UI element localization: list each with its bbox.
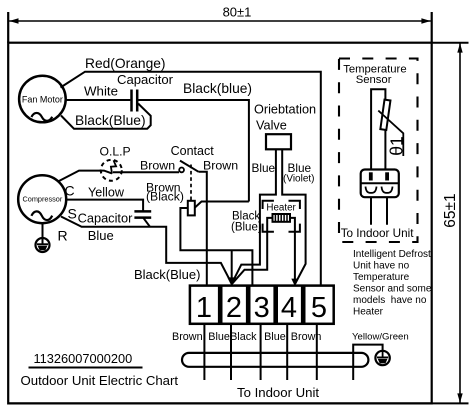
svg-text:(Blue): (Blue) bbox=[231, 222, 262, 234]
wire junction down to terminal 2 bbox=[231, 250, 233, 283]
wire coil bottom to terminals 2 and 3 bbox=[180, 208, 252, 285]
svg-text:R: R bbox=[58, 228, 68, 244]
svg-text:(Violet): (Violet) bbox=[283, 174, 315, 185]
svg-text:Black(Blue): Black(Blue) bbox=[75, 113, 146, 128]
svg-text:O.L.P: O.L.P bbox=[100, 144, 131, 158]
svg-text:Yellow/Green: Yellow/Green bbox=[352, 332, 409, 343]
wire Blue valve to terminal 2 bbox=[232, 149, 276, 283]
extension line left bbox=[7, 12, 9, 43]
svg-text:5: 5 bbox=[311, 292, 327, 324]
svg-text:2: 2 bbox=[226, 292, 242, 324]
svg-text:1: 1 bbox=[196, 292, 212, 324]
svg-text:Red(Orange): Red(Orange) bbox=[85, 56, 166, 71]
svg-text:Brown: Brown bbox=[140, 158, 175, 172]
svg-text:Brown: Brown bbox=[172, 331, 203, 343]
wire White fan motor to capacitor bbox=[65, 99, 130, 101]
svg-text:Sensor: Sensor bbox=[356, 74, 392, 86]
arrowhead into terminal 4 bbox=[291, 279, 298, 286]
compressor M2 bbox=[18, 175, 66, 223]
wire Yellow compressor C to OLP and contact bbox=[58, 171, 179, 182]
svg-text:S: S bbox=[68, 206, 77, 222]
ground compressor bbox=[36, 223, 50, 252]
border frame of chart bbox=[8, 43, 432, 404]
svg-text:Valve: Valve bbox=[256, 119, 287, 133]
wire Black(blue) capacitor to coil junction bbox=[138, 100, 249, 202]
svg-text:Contact: Contact bbox=[171, 144, 215, 158]
svg-text:To Indoor Unit: To Indoor Unit bbox=[341, 227, 415, 240]
wire Yellow/Green to ground bbox=[353, 345, 382, 380]
svg-text:Blue: Blue bbox=[208, 331, 230, 343]
svg-text:Blue: Blue bbox=[264, 331, 286, 343]
svg-text:Black(blue): Black(blue) bbox=[183, 81, 252, 96]
contact blade bbox=[180, 161, 199, 172]
svg-text:To Indoor Unit: To Indoor Unit bbox=[237, 385, 319, 400]
svg-text:80±1: 80±1 bbox=[223, 5, 252, 20]
extension line right bbox=[431, 12, 433, 43]
relay coil K1 bbox=[188, 201, 195, 216]
sensor wires to indoor unit bbox=[371, 197, 387, 225]
contact left terminal dot bbox=[179, 168, 184, 173]
svg-text:Blue: Blue bbox=[252, 161, 276, 175]
dimension line 65±1 bbox=[442, 43, 463, 402]
svg-text:Black(Blue): Black(Blue) bbox=[134, 267, 200, 282]
thermistor diagonal bbox=[378, 111, 403, 156]
ground chassis bbox=[375, 351, 389, 365]
svg-text:θ1: θ1 bbox=[387, 136, 407, 155]
thermistor RT1 body bbox=[380, 100, 390, 130]
sensor hairpin wires bbox=[371, 89, 385, 169]
svg-text:White: White bbox=[84, 84, 118, 99]
temperature sensor dashed box bbox=[339, 59, 418, 243]
O.L.P protector bbox=[101, 160, 122, 181]
note text block bbox=[353, 249, 432, 318]
terminal block TB1 bbox=[190, 286, 334, 324]
wire capacitor C2 to R wire bbox=[143, 218, 150, 227]
cable sleeve bbox=[182, 353, 368, 367]
svg-text:3: 3 bbox=[254, 292, 270, 324]
fan motor M1 bbox=[19, 76, 66, 123]
underline bbox=[29, 367, 143, 369]
svg-text:Brown: Brown bbox=[291, 331, 322, 343]
svg-text:Compressor: Compressor bbox=[23, 195, 63, 204]
dashed link contact to coil bbox=[190, 165, 192, 201]
svg-text:Oriebtation: Oriebtation bbox=[254, 103, 316, 117]
svg-text:Outdoor Unit Electric Chart: Outdoor Unit Electric Chart bbox=[21, 373, 179, 388]
connector X1 bbox=[361, 170, 399, 198]
wire coil top to Black(blue) node bbox=[195, 202, 249, 208]
arrowhead into terminal 2 bbox=[227, 277, 236, 286]
wire S Yellow to capacitor C2 bbox=[66, 200, 143, 212]
wire Red(Orange) fan motor to terminal 5 bbox=[61, 72, 321, 286]
wire Black(Blue) fan motor to capacitor right plate bbox=[61, 104, 151, 129]
svg-text:Sensor and some: Sensor and some bbox=[353, 284, 432, 295]
svg-text:models have no: models have no bbox=[353, 295, 427, 306]
svg-text:Capacitor: Capacitor bbox=[78, 210, 134, 225]
svg-text:Brown: Brown bbox=[203, 158, 238, 172]
heater dashed corner brackets bbox=[263, 201, 300, 232]
svg-text:Unit have no: Unit have no bbox=[353, 261, 410, 272]
wire Brown contact to terminal 1 bbox=[199, 172, 207, 285]
dimension line 80±1 bbox=[9, 5, 431, 24]
wires below terminals to indoor unit bbox=[204, 324, 316, 380]
svg-text:Blue: Blue bbox=[88, 228, 114, 243]
svg-text:Heater: Heater bbox=[353, 307, 384, 318]
svg-text:C: C bbox=[65, 183, 75, 199]
svg-text:Black: Black bbox=[232, 210, 260, 222]
capacitor C2 compressor bbox=[134, 211, 151, 217]
svg-text:65±1: 65±1 bbox=[442, 193, 459, 227]
svg-text:Capacitor: Capacitor bbox=[117, 72, 174, 87]
heater element R1 bbox=[273, 214, 291, 222]
wire heater left to terminal 2 bbox=[232, 218, 273, 284]
svg-text:Intelligent Defrost: Intelligent Defrost bbox=[353, 249, 431, 260]
svg-text:Heater: Heater bbox=[266, 202, 296, 213]
wire heater right to terminal 4 bbox=[290, 218, 295, 285]
capacitor C1 fan bbox=[132, 90, 138, 112]
wire Blue compressor R to terminal 2 bbox=[61, 217, 232, 284]
svg-text:4: 4 bbox=[281, 292, 297, 324]
svg-text:Yellow: Yellow bbox=[88, 186, 125, 200]
orientation valve Y1 bbox=[266, 134, 291, 149]
svg-text:(Black): (Black) bbox=[146, 190, 184, 204]
svg-text:Fan Motor: Fan Motor bbox=[22, 95, 63, 105]
svg-text:Black: Black bbox=[230, 331, 257, 343]
svg-text:11326007000200: 11326007000200 bbox=[34, 351, 133, 366]
svg-text:Temperature: Temperature bbox=[353, 272, 410, 283]
wire Blue(Violet) valve to terminal 4 bbox=[282, 149, 305, 283]
